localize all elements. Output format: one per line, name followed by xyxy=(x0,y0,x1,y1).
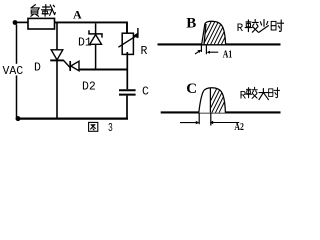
svg-text:C: C xyxy=(186,81,197,97)
label 时 (top) xyxy=(271,20,283,31)
capacitor C bottom plate xyxy=(119,94,136,96)
wire: gate junction horizontal (D2 to RC node) xyxy=(79,69,127,71)
zener D1 triangle xyxy=(90,35,102,45)
label VAC xyxy=(1,64,25,76)
waveform C arch outline xyxy=(199,88,226,113)
waveform B firing line xyxy=(204,24,206,45)
wire: bottom rail xyxy=(18,117,128,119)
dimension arrow toward tick2 C xyxy=(213,122,239,124)
variable resistor R arrow xyxy=(118,36,135,47)
dimension arrow toward tick1 B xyxy=(195,51,200,54)
dimension tick at sine start B xyxy=(200,45,202,52)
label 大 xyxy=(259,89,268,100)
wire: top terminal to load xyxy=(15,21,28,23)
SCR D cathode lead wire xyxy=(56,60,58,117)
capacitor C bottom lead wire xyxy=(126,96,128,118)
svg-text:R: R xyxy=(141,45,148,58)
label 较 (top) xyxy=(245,20,258,33)
svg-text:D1: D1 xyxy=(78,37,92,50)
variable resistor R box xyxy=(122,33,133,54)
waveform B hatching xyxy=(198,18,235,48)
svg-text:B: B xyxy=(186,15,196,31)
waveform C hatching xyxy=(203,86,232,116)
svg-text:3: 3 xyxy=(108,121,113,135)
zener D1 top lead wire xyxy=(95,24,97,34)
svg-text:R: R xyxy=(240,91,247,103)
SCR D gate lead xyxy=(64,60,71,67)
label 较 (bottom) xyxy=(246,87,257,98)
svg-text:R: R xyxy=(237,23,244,35)
svg-text:C: C xyxy=(142,86,149,99)
SCR D triangle xyxy=(51,50,63,60)
zener D1 cathode bar with wings xyxy=(89,30,102,37)
wire: left vertical VAC lead xyxy=(16,25,18,118)
axis C xyxy=(161,111,281,113)
svg-text:VAC: VAC xyxy=(3,65,24,78)
dimension tick at sine start C xyxy=(198,114,200,125)
label 少 xyxy=(259,20,269,33)
svg-text:A1: A1 xyxy=(223,49,233,60)
diode D2 cathode bar xyxy=(69,61,71,71)
wire: top rail from load to R corner and down to R xyxy=(55,22,128,33)
svg-text:A: A xyxy=(73,7,82,21)
caption 图 3 xyxy=(89,122,98,131)
label 负载 (load) xyxy=(31,5,56,17)
wire: R bottom to capacitor xyxy=(126,52,128,89)
terminal dot top (VAC +) xyxy=(13,20,18,25)
load (负载) resistor box xyxy=(28,18,55,29)
axis B xyxy=(158,43,281,45)
dimension tick at firing point B xyxy=(205,45,207,54)
SCR D cathode bar xyxy=(50,59,64,61)
svg-text:D: D xyxy=(34,61,41,74)
diode D2 triangle xyxy=(71,61,79,71)
waveform C firing line xyxy=(209,88,211,113)
capacitor C top plate xyxy=(119,89,136,91)
svg-text:D2: D2 xyxy=(82,81,96,94)
label 时 (bottom) xyxy=(269,88,280,98)
zener D1 bottom lead wire xyxy=(95,44,97,68)
terminal dot bottom (VAC -) xyxy=(16,116,21,121)
dimension arrow toward tick2 B xyxy=(210,51,219,53)
dimension arrow toward tick1 C xyxy=(180,122,196,124)
waveform B arch outline xyxy=(202,21,226,45)
svg-text:A2: A2 xyxy=(234,122,244,133)
dimension tick at firing point C xyxy=(210,114,212,126)
SCR D anode lead wire xyxy=(56,23,58,50)
